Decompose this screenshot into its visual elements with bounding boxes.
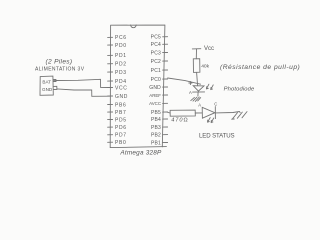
LED D2 triangle (202, 107, 215, 118)
svg-text:PB2: PB2 (151, 133, 161, 139)
svg-text:PD2: PD2 (115, 62, 127, 68)
svg-text:GND: GND (42, 87, 53, 92)
svg-text:PD3: PD3 (115, 70, 127, 76)
Vcc power bar (192, 48, 201, 50)
svg-text:PD4: PD4 (115, 79, 127, 85)
resistor R2 LED series body (170, 110, 195, 116)
wire D1 cathode to ground (197, 92, 199, 96)
svg-text:GND: GND (115, 94, 128, 100)
svg-text:PC4: PC4 (151, 42, 161, 48)
photodiode light arrow 2 (211, 85, 214, 90)
svg-text:A: A (198, 102, 201, 107)
pin 11 PD5 tick (108, 119, 113, 121)
ground under photodiode (191, 97, 201, 101)
pin 17 PB3 tick (163, 126, 168, 128)
wire Vcc bar to resistor R1 (195, 49, 197, 59)
svg-text:AREF: AREF (149, 93, 161, 98)
svg-text:PB5: PB5 (151, 110, 161, 116)
pin 16 PB2 tick (163, 134, 168, 136)
svg-text:(Résistance de pull-up): (Résistance de pull-up) (220, 64, 300, 71)
LED emission arrow 1 (208, 118, 211, 123)
svg-text:C: C (214, 102, 217, 107)
svg-text:LED STATUS: LED STATUS (199, 133, 235, 140)
svg-text:PB1: PB1 (151, 140, 161, 146)
svg-text:PD7: PD7 (115, 133, 127, 139)
pin 24 PC1 tick (163, 69, 168, 71)
pin 7 VCC tick (108, 87, 113, 89)
svg-text:A: A (189, 90, 192, 95)
wire R1 to photodiode anode node (197, 72, 198, 85)
pin 4 PD2 tick (108, 63, 113, 65)
svg-text:GND: GND (149, 85, 161, 91)
pin 18 PB4 tick (163, 118, 168, 120)
svg-text:PD1: PD1 (115, 53, 127, 59)
svg-text:BAT: BAT (42, 80, 51, 85)
wire PB5 to resistor R2 (168, 111, 171, 114)
pin 8 GND tick (108, 95, 113, 97)
svg-text:PC5: PC5 (151, 35, 161, 41)
LED D2 cathode bar (214, 107, 216, 119)
svg-text:VCC: VCC (115, 85, 128, 91)
svg-text:PC6: PC6 (115, 35, 127, 41)
svg-text:PC3: PC3 (151, 50, 161, 56)
svg-text:PB4: PB4 (151, 117, 161, 123)
photodiode plus sign (189, 81, 192, 84)
wire R2 to LED anode (195, 112, 202, 114)
battery BAT terminal (53, 79, 56, 81)
svg-text:PD5: PD5 (115, 117, 127, 123)
photodiode light arrow 1 (206, 84, 209, 89)
svg-text:PB6: PB6 (115, 102, 126, 108)
svg-text:PD6: PD6 (115, 125, 127, 131)
pin 2 PD0 tick (108, 44, 113, 46)
svg-text:PB3: PB3 (151, 125, 161, 131)
pin 3 PD1 tick (108, 54, 113, 56)
IC notch (131, 25, 137, 28)
wire LED cathode to ground (215, 112, 240, 113)
resistor R1 pull-up body (193, 59, 200, 73)
pin 28 PC5 tick (163, 36, 168, 38)
svg-text:(2 Piles): (2 Piles) (46, 58, 73, 65)
pin 22 GND tick (163, 86, 168, 88)
pin 14 PB0 tick (108, 141, 113, 143)
svg-text:PD0: PD0 (115, 43, 127, 49)
pin 25 PC2 tick (163, 60, 168, 62)
svg-text:40k: 40k (201, 63, 209, 69)
pin 26 PC3 tick (163, 52, 168, 54)
pin 13 PD7 tick (108, 134, 113, 136)
svg-text:Photodiode: Photodiode (224, 86, 255, 92)
pin 1 PC6 tick (108, 36, 113, 38)
svg-text:Atmega 328P: Atmega 328P (119, 149, 162, 156)
svg-text:PC0: PC0 (151, 77, 161, 83)
svg-text:Vcc: Vcc (204, 46, 214, 52)
battery B1 box (40, 76, 53, 95)
svg-text:PC2: PC2 (151, 59, 161, 65)
pin 5 PD3 tick (108, 71, 113, 73)
pin 6 PD4 tick (108, 80, 113, 82)
svg-text:PB7: PB7 (115, 110, 126, 116)
pin 21 AREF tick (163, 94, 168, 96)
ground at LED (232, 112, 247, 120)
IC U1 ATmega328P body (110, 25, 166, 148)
pin 23 PC0 tick (163, 78, 168, 80)
pin 10 PB7 tick (108, 111, 113, 113)
pin 15 PB1 tick (163, 142, 168, 144)
svg-text:470Ω: 470Ω (171, 118, 188, 124)
pin 20 AVCC tick (163, 102, 168, 104)
photodiode D1 cathode bar (193, 91, 205, 93)
photodiode D1 triangle (193, 86, 204, 91)
pin 19 PB5 tick (163, 111, 168, 113)
pin 12 PD6 tick (108, 126, 113, 128)
wire PC0 to photodiode node (168, 78, 201, 84)
svg-text:ALIMENTATION 3V: ALIMENTATION 3V (35, 67, 85, 73)
svg-text:AVCC: AVCC (149, 101, 161, 106)
LED emission arrow 2 (211, 118, 214, 123)
pin 27 PC4 tick (163, 43, 168, 45)
svg-text:PB0: PB0 (115, 140, 126, 146)
svg-text:PC1: PC1 (151, 68, 161, 74)
wire BAT to VCC pin (56, 79, 110, 87)
battery GND terminal (53, 86, 57, 89)
wire GND terminal to GND pin (57, 89, 110, 96)
pin 9 PB6 tick (108, 103, 113, 105)
